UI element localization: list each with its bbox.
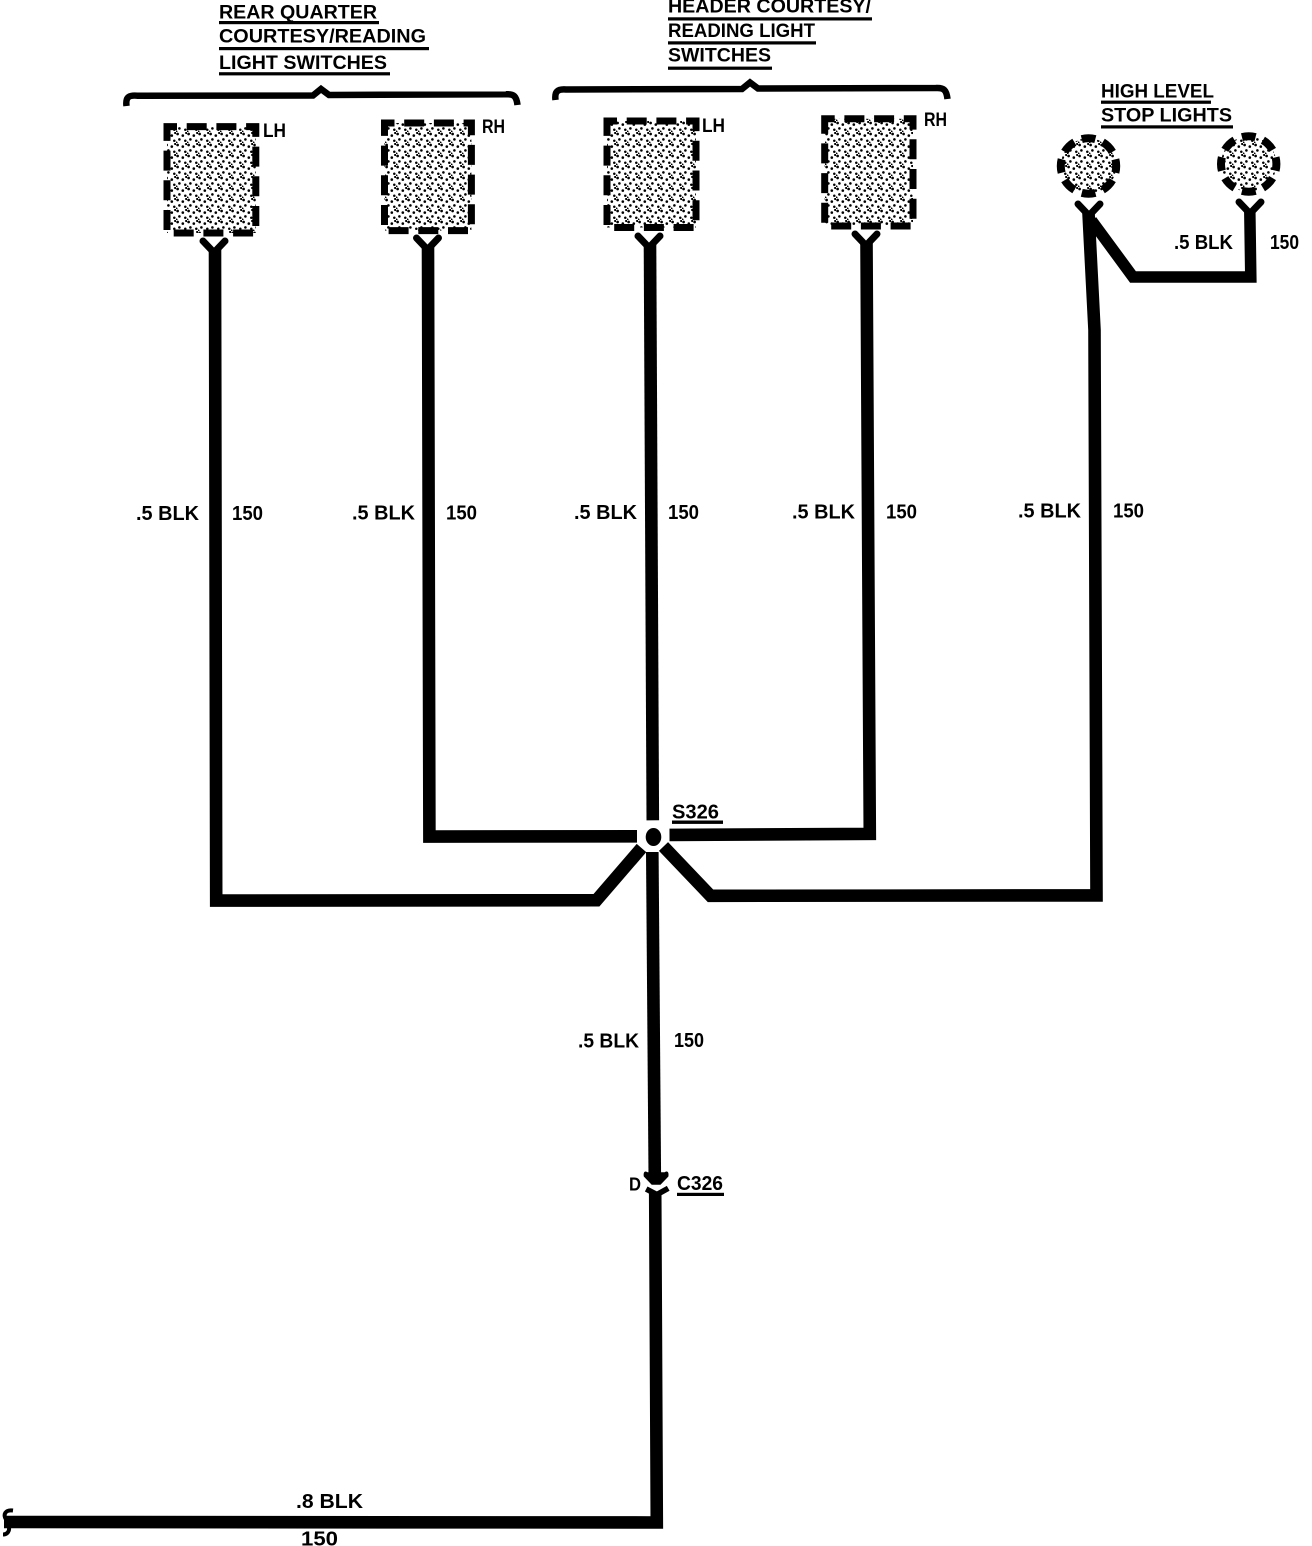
wire: S326 down to C326	[652, 852, 655, 1177]
terminal Y under rear quarter RH	[417, 238, 439, 248]
svg-text:150: 150	[674, 1030, 704, 1052]
svg-text:.5 BLK: .5 BLK	[792, 502, 856, 524]
terminal Y under stop light LH	[1078, 204, 1100, 214]
title: high level stop lights	[1101, 81, 1233, 129]
svg-text:HIGH LEVEL: HIGH LEVEL	[1101, 81, 1214, 103]
terminal Y under header LH	[638, 236, 660, 246]
switch box header LH	[607, 121, 696, 228]
wire continuation squiggle at left edge	[3, 1510, 13, 1534]
svg-text:LIGHT SWITCHES: LIGHT SWITCHES	[219, 52, 387, 74]
wire: stop light LH long drop and across to S326	[664, 213, 1097, 896]
svg-text:COURTESY/READING: COURTESY/READING	[219, 26, 426, 48]
svg-text:HEADER COURTESY/: HEADER COURTESY/	[668, 0, 872, 18]
wire: C326 down, corner, across to left edge	[4, 1192, 657, 1523]
wire: rear quarter LH switch down and across to S326	[215, 249, 642, 901]
svg-text:.8 BLK: .8 BLK	[296, 1491, 364, 1513]
svg-text:150: 150	[1270, 232, 1299, 254]
svg-text:D: D	[629, 1175, 641, 1195]
stop light LH lamp	[1061, 138, 1116, 193]
wire: stop light RH drop, across, diagonal up to LH wire	[1092, 211, 1251, 277]
svg-text:S326: S326	[672, 802, 719, 824]
svg-text:150: 150	[1113, 501, 1144, 523]
svg-text:150: 150	[446, 503, 477, 525]
svg-text:RH: RH	[482, 116, 505, 138]
terminal Y under stop light RH	[1239, 202, 1261, 212]
connector C326 female half	[646, 1188, 668, 1194]
svg-text:READING LIGHT: READING LIGHT	[668, 20, 815, 42]
svg-text:LH: LH	[702, 115, 725, 137]
terminal Y under header RH	[855, 234, 877, 244]
svg-text:150: 150	[886, 502, 917, 524]
svg-text:SWITCHES: SWITCHES	[668, 45, 771, 67]
title: header courtesy/reading light switches	[668, 0, 872, 70]
svg-text:.5 BLK: .5 BLK	[352, 503, 416, 525]
brace over header switches	[555, 83, 947, 101]
svg-text:.5 BLK: .5 BLK	[574, 502, 638, 524]
wire: rear quarter RH switch down to left bus	[428, 246, 637, 837]
switch box rear quarter LH	[167, 127, 256, 233]
wire: header LH switch straight down to S326	[650, 244, 653, 820]
svg-text:REAR QUARTER: REAR QUARTER	[219, 2, 377, 24]
svg-text:.5 BLK: .5 BLK	[1018, 501, 1082, 523]
svg-text:150: 150	[232, 503, 263, 525]
svg-text:150: 150	[668, 502, 699, 524]
svg-text:.5 BLK: .5 BLK	[1174, 232, 1234, 254]
brace over rear quarter switches	[126, 89, 517, 106]
svg-text:STOP LIGHTS: STOP LIGHTS	[1101, 105, 1232, 127]
connector C326 male half	[644, 1172, 669, 1185]
svg-text:150: 150	[301, 1529, 338, 1546]
svg-text:LH: LH	[263, 120, 286, 142]
title: rear quarter courtesy/reading light switches	[219, 2, 429, 76]
svg-text:.5 BLK: .5 BLK	[136, 503, 200, 525]
switch box header RH	[825, 119, 913, 226]
wire: header RH switch down then left to S326	[670, 242, 870, 835]
switch box rear quarter RH	[385, 123, 472, 231]
svg-text:.5 BLK: .5 BLK	[578, 1031, 640, 1053]
splice S326 dot	[646, 828, 662, 846]
stop light RH lamp	[1221, 136, 1276, 191]
terminal Y under rear quarter LH	[203, 241, 225, 251]
svg-text:RH: RH	[924, 109, 947, 131]
svg-text:C326: C326	[677, 1173, 723, 1195]
